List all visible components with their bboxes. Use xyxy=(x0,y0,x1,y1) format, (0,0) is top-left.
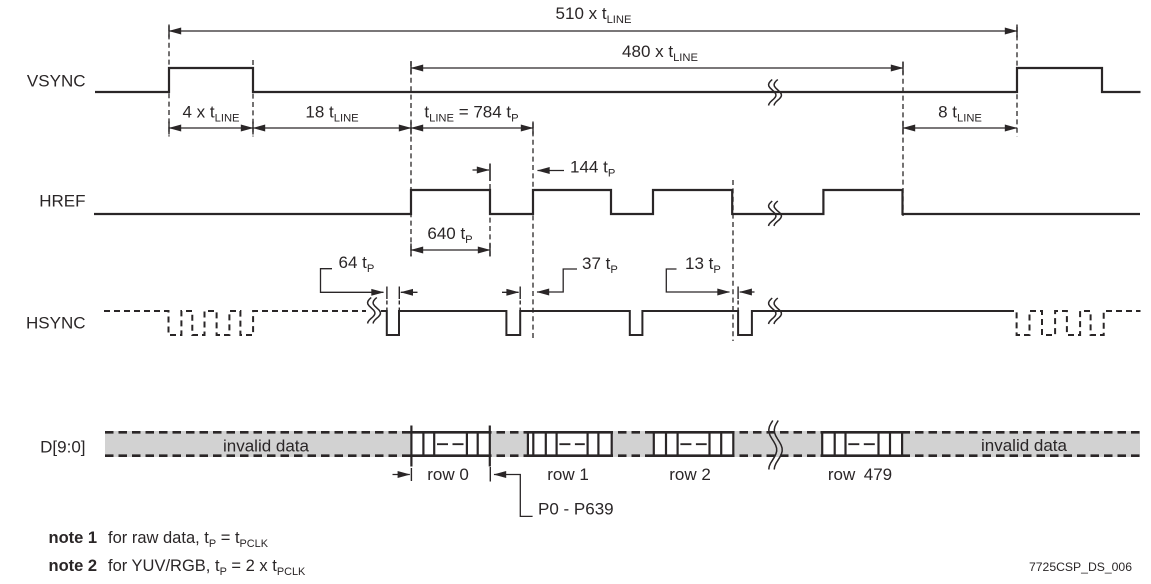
svg-text:invalid data: invalid data xyxy=(223,437,310,456)
leader 13 tP xyxy=(666,269,729,292)
break VSYNC line xyxy=(769,80,776,106)
wire VSYNC waveform xyxy=(95,68,1141,92)
guide dashed x=533 xyxy=(532,123,534,341)
svg-text:4 x tLINE: 4 x tLINE xyxy=(183,103,240,125)
guide dashed x=169 xyxy=(168,26,170,137)
bus band gray fill xyxy=(105,431,1140,457)
svg-text:D[9:0]: D[9:0] xyxy=(40,438,85,457)
dim arrow 510 x tLINE xyxy=(169,30,1017,32)
guide dashed x=903 xyxy=(902,62,904,216)
svg-text:note 2: note 2 xyxy=(49,557,98,575)
svg-text:18 tLINE: 18 tLINE xyxy=(305,103,358,125)
data block row 1 xyxy=(527,431,613,458)
dim arrow 480 x tLINE xyxy=(411,67,903,69)
svg-text:tLINE = 784 tP: tLINE = 784 tP xyxy=(424,103,518,125)
leader P0 - P639 xyxy=(494,475,533,517)
dim arrow 4 x tLINE xyxy=(169,127,253,129)
svg-text:640 tP: 640 tP xyxy=(427,224,472,246)
svg-text:480 x tLINE: 480 x tLINE xyxy=(622,42,698,64)
wire HSYNC solid with pulses xyxy=(381,311,1008,335)
svg-text:for raw data, tP = tPCLK: for raw data, tP = tPCLK xyxy=(108,529,269,550)
wire HSYNC dashed left with pulses xyxy=(104,311,366,335)
svg-text:8 tLINE: 8 tLINE xyxy=(938,103,982,125)
dim arrow 18 tLINE xyxy=(253,127,411,129)
svg-text:row 479: row 479 xyxy=(828,465,892,484)
svg-text:HSYNC: HSYNC xyxy=(26,314,86,333)
dim arrow 144 tP xyxy=(538,170,565,172)
tick HSYNC pulse2 rise xyxy=(519,287,521,300)
leader 64 tP xyxy=(321,269,384,293)
arrow to 640 right edge xyxy=(473,169,490,171)
guide dashed x=733 xyxy=(732,180,734,341)
svg-text:invalid data: invalid data xyxy=(981,436,1068,455)
tick row 0 end xyxy=(489,467,491,482)
break HSYNC line left xyxy=(368,298,375,324)
guide dashed x=411 xyxy=(410,61,412,256)
guide dashed x=490 xyxy=(489,184,491,256)
guide dashed x=253 xyxy=(252,60,254,137)
svg-text:37 tP: 37 tP xyxy=(582,254,618,276)
arrow to row 0 start xyxy=(393,474,410,476)
svg-text:row 1: row 1 xyxy=(547,465,589,484)
guide dashed x=1017 xyxy=(1016,27,1018,137)
data block row 479 xyxy=(821,431,903,458)
arrow at HSYNC pulse1 rise xyxy=(401,291,418,293)
tick HSYNC pulse1 fall xyxy=(386,287,388,300)
svg-text:7725CSP_DS_006: 7725CSP_DS_006 xyxy=(1029,560,1132,574)
data block row 2 xyxy=(653,431,735,458)
svg-text:P0 - P639: P0 - P639 xyxy=(538,500,614,519)
bus band bottom dashed border xyxy=(105,454,1140,457)
break D bus band xyxy=(769,421,777,470)
svg-text:64 tP: 64 tP xyxy=(339,253,375,275)
leader 37 tP xyxy=(537,269,577,292)
svg-text:note 1: note 1 xyxy=(49,529,98,547)
break HSYNC line right xyxy=(769,298,776,324)
bus band top dashed border xyxy=(105,431,1140,434)
dim arrow 640 tP xyxy=(411,249,490,251)
break HREF line xyxy=(769,201,776,226)
wire HREF waveform xyxy=(94,190,1140,214)
arrow at HSYNC pulse4 fall xyxy=(740,291,755,293)
dim arrow tLINE = 784 tP xyxy=(411,127,533,129)
dim arrow 8 tLINE xyxy=(903,127,1017,129)
svg-text:144 tP: 144 tP xyxy=(570,158,615,180)
arrow to HSYNC pulse2 rise xyxy=(502,291,519,293)
tick HSYNC pulse1 rise xyxy=(398,287,400,300)
tick HSYNC pulse4 fall xyxy=(737,287,739,300)
svg-text:row 2: row 2 xyxy=(669,465,711,484)
svg-text:13 tP: 13 tP xyxy=(685,254,721,276)
svg-text:row 0: row 0 xyxy=(427,465,469,484)
data block row 0 xyxy=(410,426,490,467)
svg-text:for YUV/RGB, tP = 2 x tPCLK: for YUV/RGB, tP = 2 x tPCLK xyxy=(108,557,306,578)
svg-text:510 x tLINE: 510 x tLINE xyxy=(556,4,632,26)
svg-text:VSYNC: VSYNC xyxy=(27,72,86,91)
svg-text:HREF: HREF xyxy=(39,192,85,211)
wire HSYNC dashed right with pulses xyxy=(1008,311,1141,335)
